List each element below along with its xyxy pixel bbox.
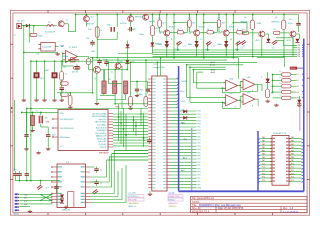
svg-text:PE4: PE4 xyxy=(198,149,201,151)
svg-text:PE2: PE2 xyxy=(198,143,201,145)
svg-text:PD5: PD5 xyxy=(198,127,201,129)
svg-text:PA/5: PA/5 xyxy=(181,122,185,125)
svg-text:aux-5/p: aux-5/p xyxy=(169,193,175,195)
svg-text:PA5: PA5 xyxy=(291,153,294,156)
svg-text:474: 474 xyxy=(86,38,89,40)
svg-text:KEYB-CON %: KEYB-CON % xyxy=(169,196,180,198)
svg-text:PD7: PD7 xyxy=(198,133,201,135)
svg-text:AUX-IO-1: AUX-IO-1 xyxy=(129,205,136,208)
svg-text:10u: 10u xyxy=(14,169,17,171)
svg-text:F5: F5 xyxy=(297,98,299,100)
svg-text:10k: 10k xyxy=(124,86,127,88)
svg-text:1u: 1u xyxy=(100,169,102,171)
svg-text:Gn2: Gn2 xyxy=(181,110,184,112)
svg-text:PD2: PD2 xyxy=(198,117,201,119)
svg-text:GND-PWR-S: GND-PWR-S xyxy=(129,203,140,205)
svg-text:OSC2/WD/CLK0: OSC2/WD/CLK0 xyxy=(60,128,74,130)
svg-text:IRFR5305: IRFR5305 xyxy=(241,21,249,23)
svg-text:NoL1/3C/L34: NoL1/3C/L34 xyxy=(96,127,107,129)
svg-text:PC2: PC2 xyxy=(262,170,265,172)
svg-text:PA5: PA5 xyxy=(262,153,265,156)
svg-text:PC1: PC1 xyxy=(262,167,265,169)
svg-text:100n: 100n xyxy=(140,90,144,92)
svg-text:T7: T7 xyxy=(111,72,114,74)
svg-text:+L5: +L5 xyxy=(36,54,40,56)
svg-text:SclL+/-MC: SclL+/-MC xyxy=(98,141,107,143)
svg-text:10k: 10k xyxy=(88,29,92,31)
svg-text:PA3: PA3 xyxy=(291,146,294,149)
svg-text:BAV: BAV xyxy=(218,43,223,46)
svg-text:F2: F2 xyxy=(297,80,299,82)
svg-text:AuxR: AuxR xyxy=(211,71,216,74)
svg-text:PA4: PA4 xyxy=(291,149,294,152)
svg-text:U5A: U5A xyxy=(229,77,233,80)
svg-text:Q2: Q2 xyxy=(91,17,95,19)
svg-text:PC4: PC4 xyxy=(291,177,294,179)
svg-text:U5D: U5D xyxy=(247,92,251,94)
svg-text:CN-M: CN-M xyxy=(290,68,295,70)
svg-text:C9: C9 xyxy=(272,47,276,49)
svg-text:ScL0/3B/Lo: ScL0/3B/Lo xyxy=(97,125,106,127)
svg-text:PC5: PC5 xyxy=(262,180,265,182)
svg-text:B: B xyxy=(252,105,254,107)
svg-text:[MJ2]: [MJ2] xyxy=(14,214,19,216)
svg-text:16v: 16v xyxy=(134,29,137,31)
svg-text:R5: R5 xyxy=(158,18,160,20)
svg-text:IC2: IC2 xyxy=(154,64,158,66)
svg-text:B+ 12V: B+ 12V xyxy=(18,21,26,23)
svg-text:1k: 1k xyxy=(200,39,202,41)
svg-text:PA7: PA7 xyxy=(262,159,265,162)
svg-text:L3: L3 xyxy=(280,83,282,85)
svg-text:4u7: 4u7 xyxy=(46,188,49,190)
svg-text:PF0: PF0 xyxy=(198,162,201,164)
svg-text:100n: 100n xyxy=(139,34,145,36)
svg-text:R6: R6 xyxy=(188,18,190,20)
svg-text:RXD: RXD xyxy=(24,198,28,200)
svg-text:Q8: Q8 xyxy=(244,17,246,19)
svg-text:MisoTX-5: MisoTX-5 xyxy=(99,119,107,121)
svg-text:Date: 29 Jan 2009 09:58: Date: 29 Jan 2009 09:58 xyxy=(218,207,244,210)
svg-text:PB4: PB4 xyxy=(298,54,301,56)
svg-text:PA0: PA0 xyxy=(262,136,265,139)
svg-text:JP-PROG-01: JP-PROG-01 xyxy=(129,196,139,198)
svg-text:PE1: PE1 xyxy=(198,140,201,142)
svg-text:BC857: BC857 xyxy=(169,26,175,28)
svg-text:PB2: PB2 xyxy=(298,50,301,52)
svg-text:PA1: PA1 xyxy=(262,139,265,142)
svg-text:T3: T3 xyxy=(94,78,96,80)
svg-text:MC/TOSC/0.F/A0: MC/TOSC/0.F/A0 xyxy=(92,112,106,115)
svg-text:RFD/Tdi/Inp: RFD/Tdi/Inp xyxy=(60,137,70,139)
svg-text:PF1: PF1 xyxy=(198,165,201,167)
svg-text:10k: 10k xyxy=(103,86,106,88)
svg-text:PA6: PA6 xyxy=(262,156,265,159)
svg-text:R7: R7 xyxy=(218,18,220,20)
svg-text:4k7: 4k7 xyxy=(222,22,226,24)
svg-text:MEGA8-P: MEGA8-P xyxy=(99,152,109,155)
svg-text:PB3: PB3 xyxy=(298,52,301,54)
svg-text:BC5: BC5 xyxy=(256,40,261,42)
svg-text:F1: F1 xyxy=(297,74,299,76)
svg-text:16M: 16M xyxy=(45,70,49,72)
svg-text:4k7: 4k7 xyxy=(192,22,196,24)
svg-text:PD4: PD4 xyxy=(198,124,201,126)
svg-text:L4: L4 xyxy=(280,89,282,91)
svg-text:10k: 10k xyxy=(137,94,140,96)
svg-text:PANAMAHD in 25cc_new RGs and m: PANAMAHD in 25cc_new RGs and more xyxy=(199,204,242,207)
svg-text:10k: 10k xyxy=(114,86,117,88)
svg-text:T4: T4 xyxy=(159,33,162,35)
svg-text:10u: 10u xyxy=(289,19,292,21)
svg-text:PWR-J2-C: PWR-J2-C xyxy=(169,206,178,208)
svg-text:PB0: PB0 xyxy=(298,45,301,47)
svg-text:TXD: TXD xyxy=(24,194,28,196)
svg-text:PC5: PC5 xyxy=(291,180,294,182)
svg-text:100n: 100n xyxy=(52,135,56,137)
svg-text:PE0: PE0 xyxy=(198,136,201,138)
svg-text:A4-1: A4-1 xyxy=(183,157,187,160)
svg-text:PA7: PA7 xyxy=(291,159,294,162)
svg-text:PB1: PB1 xyxy=(298,47,301,49)
svg-text:F4: F4 xyxy=(297,92,299,94)
svg-text:Rev:: Rev: xyxy=(283,208,288,210)
svg-text:F3: F3 xyxy=(297,86,299,88)
svg-text:T4: T4 xyxy=(218,33,221,35)
svg-text:PE5: PE5 xyxy=(198,152,201,154)
svg-text:4k7: 4k7 xyxy=(156,28,160,30)
svg-text:47-100uH: 47-100uH xyxy=(45,32,55,34)
svg-text:ISP-CON6: ISP-CON6 xyxy=(129,199,137,201)
svg-text:1n: 1n xyxy=(65,73,67,75)
svg-text:PC3: PC3 xyxy=(291,173,294,175)
svg-text:PC4: PC4 xyxy=(262,177,265,179)
svg-text:PD0: PD0 xyxy=(198,111,201,113)
svg-text:10k: 10k xyxy=(124,94,127,96)
svg-text:PE3: PE3 xyxy=(198,146,201,148)
svg-text:BAV: BAV xyxy=(158,43,163,46)
svg-text:PA3: PA3 xyxy=(262,146,265,149)
svg-text:PF3: PF3 xyxy=(198,172,201,174)
svg-text:BSS138: BSS138 xyxy=(87,24,94,26)
svg-text:R9: R9 xyxy=(61,80,64,82)
svg-text:1k: 1k xyxy=(230,39,232,41)
svg-text:4k7: 4k7 xyxy=(162,22,166,24)
svg-text:1u: 1u xyxy=(100,182,102,184)
svg-text:PC0: PC0 xyxy=(262,163,265,165)
svg-text:PA0: PA0 xyxy=(291,136,294,139)
svg-text:OSC1/WD/CLK1: OSC1/WD/CLK1 xyxy=(60,119,74,121)
svg-text:PWR-MD/1: PWR-MD/1 xyxy=(97,130,106,132)
svg-text:PA2: PA2 xyxy=(291,143,294,146)
svg-text:22p: 22p xyxy=(63,66,67,68)
svg-text:PF7: PF7 xyxy=(198,184,201,186)
svg-text:p1-conf/5: p1-conf/5 xyxy=(129,193,136,195)
svg-text:IRFR5305: IRFR5305 xyxy=(272,21,280,23)
svg-text:T4: T4 xyxy=(188,33,191,35)
svg-text:BC5: BC5 xyxy=(287,40,292,42)
svg-text:1u: 1u xyxy=(30,135,32,137)
svg-text:Aux5: Aux5 xyxy=(181,90,185,93)
svg-text:4u7/25v: 4u7/25v xyxy=(120,23,126,25)
svg-text:mega128-a: mega128-a xyxy=(154,67,166,69)
svg-text:16M: 16M xyxy=(46,122,50,124)
svg-text:FWL/TD0/PNA/A0: FWL/TD0/PNA/A0 xyxy=(92,115,107,118)
svg-text:PF2: PF2 xyxy=(198,168,201,170)
svg-text:U5C: U5C xyxy=(229,93,233,95)
svg-text:L1: L1 xyxy=(280,71,282,73)
svg-text:IC1: IC1 xyxy=(62,46,65,48)
svg-text:b7: b7 xyxy=(109,79,111,81)
svg-text:C7: C7 xyxy=(213,46,215,48)
svg-text:BAV: BAV xyxy=(188,43,193,46)
svg-text:(A)A00L+L2F: (A)A00L+L2F xyxy=(96,135,108,138)
svg-text:max1626: max1626 xyxy=(42,47,52,49)
svg-text:Size: A4: Size: A4 xyxy=(192,207,201,210)
svg-text:MOVETEK T.E.A.: MOVETEK T.E.A. xyxy=(192,210,210,213)
svg-text:L5: L5 xyxy=(48,22,51,24)
svg-text:B: B xyxy=(214,33,216,35)
svg-text:9 1:47 09:58:04: 9 1:47 09:58:04 xyxy=(283,211,299,213)
svg-text:BC857: BC857 xyxy=(199,26,205,28)
svg-text:PS/2: PS/2 xyxy=(115,107,121,109)
svg-text:BUS-EXT-2: BUS-EXT-2 xyxy=(169,203,178,205)
svg-text:IC4: IC4 xyxy=(66,162,70,164)
svg-text:GND: GND xyxy=(91,51,96,53)
svg-text:1: 1 xyxy=(261,76,263,78)
svg-text:+5V/5: +5V/5 xyxy=(181,101,186,103)
svg-text:1k: 1k xyxy=(100,30,102,32)
svg-text:PB5: PB5 xyxy=(298,56,301,58)
svg-text:Layout:: Layout: xyxy=(192,201,200,204)
svg-text:C7: C7 xyxy=(183,46,185,48)
svg-text:PC1: PC1 xyxy=(291,167,294,169)
svg-text:4E-L: 4E-L xyxy=(184,139,188,141)
svg-text:L5: L5 xyxy=(280,95,282,97)
svg-text:Q9: Q9 xyxy=(275,17,277,19)
svg-text:1N4148: 1N4148 xyxy=(149,21,155,23)
svg-text:100k: 100k xyxy=(38,35,42,37)
svg-text:RS232-J: RS232-J xyxy=(169,199,176,201)
svg-text:GND: GND xyxy=(198,188,202,190)
svg-text:TAL0/SL/MOS: TAL0/SL/MOS xyxy=(95,121,107,124)
svg-text:PC0: PC0 xyxy=(291,163,294,165)
svg-text:4700: 4700 xyxy=(257,23,262,25)
svg-text:16MHz: 16MHz xyxy=(62,56,68,58)
svg-text:S10L+/F: S10L+/F xyxy=(100,147,108,149)
svg-text:5+: 5+ xyxy=(14,35,17,37)
svg-text:PA6: PA6 xyxy=(291,156,294,159)
svg-text:ReCch/+ACL/: ReCch/+ACL/ xyxy=(95,132,107,135)
svg-text:X7 6RC5: X7 6RC5 xyxy=(69,47,78,49)
svg-text:470u: 470u xyxy=(107,24,113,26)
svg-text:PA2: PA2 xyxy=(262,143,265,146)
svg-text:Title:: Title: xyxy=(192,204,197,207)
svg-text:4700: 4700 xyxy=(288,23,293,25)
svg-text:U5B: U5B xyxy=(247,77,251,79)
svg-text:T1: T1 xyxy=(66,20,69,22)
svg-text:PF5: PF5 xyxy=(198,178,201,180)
svg-text:+5V/1A: +5V/1A xyxy=(181,80,188,83)
svg-text:CTS: CTS xyxy=(24,204,27,206)
svg-text:File: panamaHD1.sch: File: panamaHD1.sch xyxy=(192,198,215,200)
svg-text:BC857: BC857 xyxy=(229,26,235,28)
svg-text:L2: L2 xyxy=(280,77,282,79)
svg-text:4k7/1%: 4k7/1% xyxy=(72,71,79,73)
svg-text:PA1: PA1 xyxy=(291,139,294,142)
svg-text:PC2: PC2 xyxy=(291,170,294,172)
svg-text:PA4: PA4 xyxy=(262,149,265,152)
svg-text:MAX232: MAX232 xyxy=(62,209,71,212)
svg-text:PF6: PF6 xyxy=(198,181,201,183)
svg-text:PF4: PF4 xyxy=(198,175,201,177)
svg-text:dm1: dm1 xyxy=(181,170,185,172)
svg-text:AuxCL: AuxCL xyxy=(210,64,215,67)
svg-text:BUS-EXT-TK: BUS-EXT-TK xyxy=(274,133,287,135)
svg-text:PE6: PE6 xyxy=(198,156,201,158)
svg-text:RL1: RL1 xyxy=(40,78,45,80)
svg-text:+CC: +CC xyxy=(60,146,64,148)
svg-text:(10)L+/F1: (10)L+/F1 xyxy=(99,144,107,146)
svg-text:MouCt/+A0/: MouCt/+A0/ xyxy=(97,137,107,140)
svg-text:PD3: PD3 xyxy=(198,120,201,122)
svg-text:PD1: PD1 xyxy=(198,114,201,116)
svg-text:PC3: PC3 xyxy=(262,173,265,175)
svg-text:RTS: RTS xyxy=(24,201,27,203)
svg-text:22p: 22p xyxy=(45,118,48,120)
svg-text:PD6: PD6 xyxy=(198,130,201,132)
svg-text:1k: 1k xyxy=(171,39,173,41)
svg-text:B: B xyxy=(184,33,186,35)
svg-text:PE7: PE7 xyxy=(198,159,201,161)
